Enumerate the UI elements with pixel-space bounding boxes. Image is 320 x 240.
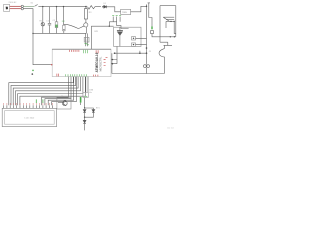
loop bottom rail [112, 73, 164, 75]
svg-text:rev 1.0: rev 1.0 [167, 127, 174, 130]
right block lower wires [160, 36, 176, 38]
svg-text:ATMEGA8-16: ATMEGA8-16 [95, 52, 99, 72]
wire regulator out [131, 6, 147, 12]
vertical node wire [116, 46, 118, 63]
red pin dot [51, 64, 52, 66]
wire to regulator [107, 7, 121, 12]
wire down to probe connector [146, 53, 148, 64]
sensor cup [151, 31, 154, 34]
IC name vertical text [95, 52, 102, 72]
svg-text:Hz: Hz [89, 92, 91, 94]
wire bus to IC pin b [87, 33, 89, 46]
green tick pin label b [87, 44, 89, 46]
switch S1 blade [35, 5, 38, 7]
LCD pins [4, 105, 53, 108]
wire connector to bottom rail [146, 68, 148, 74]
fuse F1 zigzag [88, 6, 101, 10]
diode D5 [83, 117, 86, 130]
svg-text:LCD 16x2: LCD 16x2 [25, 118, 36, 120]
sensor DS green label [151, 26, 152, 29]
diode D4 [92, 110, 95, 113]
wire N (red) [10, 8, 22, 10]
bus wire [33, 32, 86, 34]
triangle component in module [117, 30, 123, 32]
wire L (red) [10, 5, 22, 7]
wire N to IC pin [33, 64, 51, 66]
IC top pin numbers red [69, 50, 98, 54]
LCD pin numbers red [4, 103, 53, 104]
node IC right pins [112, 59, 114, 61]
svg-text:7805: 7805 [122, 12, 128, 14]
diode D3 [83, 107, 93, 112]
IC U1 body [52, 49, 111, 76]
wire Q1 emitter down [85, 27, 87, 33]
green mark under N wire [32, 70, 33, 71]
wire corner to regulator box [92, 26, 114, 49]
green cap on wire [80, 97, 82, 103]
wire triangle up [119, 27, 121, 30]
node Vcc mid [146, 47, 148, 49]
resistor R2 [84, 7, 87, 23]
stub above rail [139, 51, 141, 53]
svg-text:230V AC: 230V AC [9, 1, 17, 4]
capacitor C2 (boxed) [55, 7, 58, 34]
varistor R1 [40, 7, 45, 34]
IC right wires [111, 60, 117, 64]
relay contact block [163, 16, 174, 18]
wire to switch [23, 5, 34, 7]
wire top rail [38, 6, 86, 8]
wire bus to IC pin a [84, 33, 86, 46]
transistor Q1 [84, 23, 88, 27]
LCD green labels [36, 99, 43, 103]
switch S2 [159, 45, 164, 73]
connector X1 top [21, 5, 23, 7]
right block wires [160, 5, 176, 7]
svg-text:MICROCTRL: MICROCTRL [99, 56, 102, 71]
mains plug J1 [4, 4, 10, 11]
IC bottom pin labels [57, 74, 98, 77]
transistor box Q2 [57, 96, 71, 109]
connector header J2 [84, 37, 89, 42]
junction N/bus [32, 33, 33, 34]
node Vcc top [146, 6, 147, 7]
LED D2 cup body [63, 25, 66, 31]
IC left fan wires [9, 77, 74, 106]
module box U3 [114, 27, 141, 46]
junction dot [32, 73, 34, 75]
wire curve to Q1 [64, 24, 85, 28]
diode D1 [102, 5, 106, 8]
wire D2 to bus [63, 31, 65, 34]
top right vertical rail [149, 3, 152, 27]
join wires [85, 113, 94, 118]
regulator U2 7805 [121, 9, 131, 14]
LCD module [2, 108, 56, 126]
IC right pin numbers red [104, 58, 108, 66]
power rail to connector [114, 52, 147, 54]
pads in module [132, 37, 136, 40]
wire triangle down [119, 35, 121, 46]
LED D2 [62, 7, 66, 26]
filter caps C3 C4 C5 [109, 16, 121, 27]
probe connector circles [144, 65, 147, 68]
wire Vcc vertical [146, 4, 148, 53]
node dots on rail [42, 6, 43, 7]
wire N down [23, 9, 33, 65]
wire staircase to module [117, 22, 129, 29]
crystal Y1 [83, 92, 88, 97]
green tick pin label [84, 42, 87, 44]
IC top pin names green [84, 50, 88, 53]
crystal wires [86, 77, 88, 93]
capacitor C1 [46, 7, 51, 34]
connector X1 bottom [21, 8, 23, 10]
IC right fan wires [42, 77, 69, 106]
